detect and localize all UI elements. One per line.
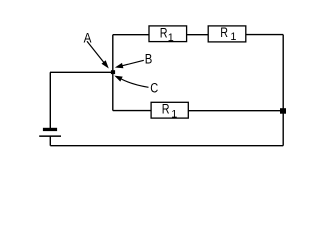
wire left vertical to battery — [49, 72, 51, 128]
node right junction dot — [280, 108, 286, 114]
wire between R1 and R1 — [187, 34, 209, 36]
resistor R1 (bottom) — [151, 101, 188, 120]
label A — [84, 29, 92, 45]
wire right vertical — [282, 35, 284, 146]
arrow B — [115, 60, 144, 68]
svg-text:C: C — [150, 81, 158, 96]
wire bottom horizontal — [50, 145, 283, 147]
wire left horizontal to node — [50, 71, 113, 73]
svg-text:1: 1 — [230, 31, 236, 43]
label B — [145, 52, 153, 67]
wire top right horizontal — [246, 34, 283, 36]
wire bottom branch right — [188, 110, 283, 112]
resistor R1 (top left) — [149, 25, 187, 44]
svg-text:R: R — [162, 101, 170, 117]
arrow A — [87, 41, 109, 68]
wire battery to bottom — [49, 137, 51, 146]
node junction dot — [111, 70, 115, 74]
label C — [150, 81, 158, 96]
svg-text:1: 1 — [171, 108, 177, 120]
svg-text:R: R — [220, 25, 228, 41]
wire top left horizontal — [113, 34, 149, 36]
svg-text:R: R — [160, 25, 168, 41]
arrow C — [114, 76, 148, 88]
svg-text:B: B — [145, 52, 153, 67]
wire bottom branch left — [113, 110, 151, 112]
battery positive plate — [39, 135, 61, 137]
svg-text:1: 1 — [168, 32, 174, 44]
resistor R1 (top right) — [208, 25, 246, 43]
wire node vertical — [112, 35, 114, 111]
battery negative plate — [43, 128, 57, 131]
